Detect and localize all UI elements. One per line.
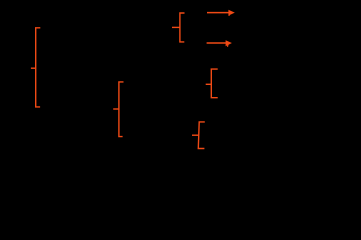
brace left (large) [31, 28, 40, 107]
brace bottom-middle [192, 122, 205, 149]
brace mid-right [206, 69, 218, 98]
brace top-middle [172, 13, 185, 42]
arrow upper [207, 10, 235, 16]
brace mid-left [113, 82, 123, 137]
arrow lower [207, 40, 232, 47]
